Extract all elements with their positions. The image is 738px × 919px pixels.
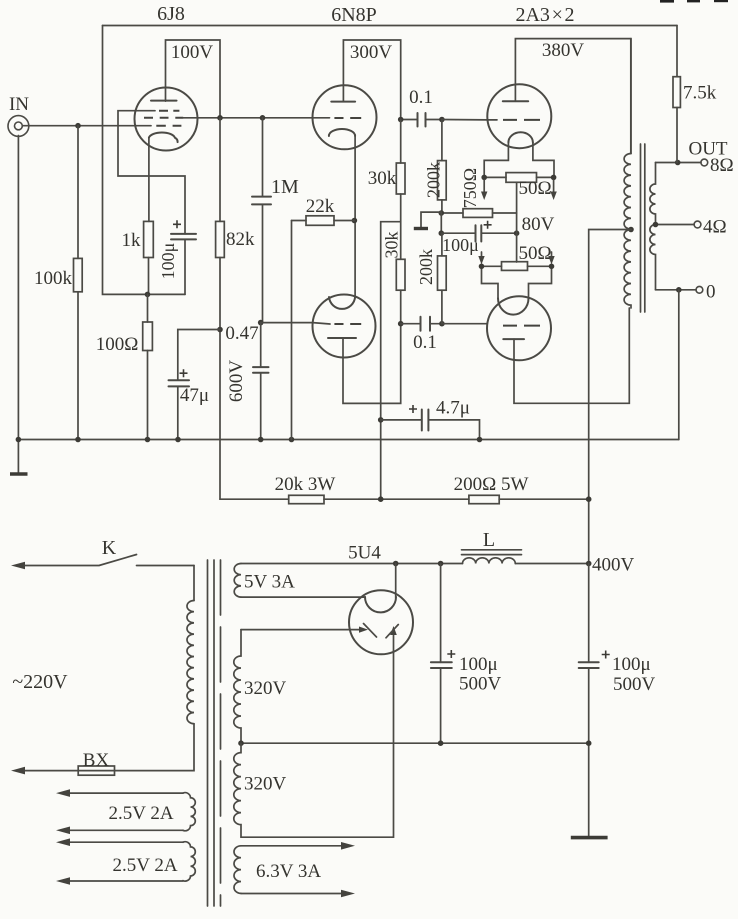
wire grid feed into V3a (442, 119, 497, 121)
node 100V callout bracket (166, 40, 221, 118)
capacitor 0.1 upper coupling (401, 119, 442, 121)
svg-text:400V: 400V (592, 555, 635, 576)
resistor 7.5k feedback (676, 26, 678, 163)
svg-text:500V: 500V (613, 674, 656, 695)
svg-text:1k: 1k (122, 230, 142, 251)
5U4 right anode with arrow (393, 634, 395, 651)
ground symbol left (17, 440, 19, 475)
wire left vertical from top bus down to cathode return (103, 26, 186, 295)
node junction 100u left at common row (438, 740, 444, 746)
wire 0.47 node to V2b grid (261, 322, 313, 324)
capacitor 100u bias (441, 232, 516, 234)
ground bus bottom of amp section (18, 439, 678, 441)
tube V3a filament dome (508, 132, 533, 142)
arrow filament feed lower right (down) (551, 252, 553, 257)
tube V3b grid (dashed) (503, 325, 540, 327)
svg-text:4Ω: 4Ω (703, 217, 727, 238)
output transformer secondary (650, 163, 656, 290)
svg-text:100V: 100V (171, 42, 214, 63)
wire IN jack to tube V1 grid (22, 125, 151, 127)
svg-text:0.47: 0.47 (225, 323, 258, 344)
svg-text:320V: 320V (244, 774, 287, 795)
resistor 20k 3W (289, 495, 324, 503)
resistor 100ohm (147, 294, 149, 439)
svg-text:7.5k: 7.5k (683, 83, 717, 104)
svg-text:0.1: 0.1 (413, 332, 437, 353)
svg-text:20k 3W: 20k 3W (275, 474, 336, 495)
node junction 4.7u to bus (477, 437, 483, 443)
tube V1 plate (151, 100, 177, 102)
node junction 8ohm / 7.5k (675, 160, 681, 166)
arrow filament feed left (down) (483, 180, 485, 193)
svg-text:200k: 200k (416, 249, 436, 285)
resistor 50ohm hum pot upper (484, 176, 553, 178)
node junction plate node at 82k (217, 115, 223, 121)
svg-text:750Ω: 750Ω (460, 168, 480, 208)
wire 50ohm center tap vertical (516, 182, 518, 262)
tube V2a plate (331, 101, 355, 103)
svg-text:300V: 300V (350, 42, 393, 63)
resistor 50ohm hum pot lower (482, 265, 552, 267)
resistor 82k plate load (219, 118, 221, 499)
svg-text:L: L (483, 529, 495, 551)
tube V2a cathode arc (329, 129, 355, 136)
wire V2b plate down and to 0.1 lower (343, 324, 401, 404)
arrow filament feed right (down) (553, 180, 555, 193)
wire secondary bottom to 0 terminal (656, 289, 697, 291)
capacitor 100u cathode bypass (171, 234, 196, 240)
resistor 30k upper plate load (400, 120, 402, 222)
tube V2b 6N8P lower triode envelope (313, 295, 376, 358)
switch K with mains arrow (20, 555, 194, 566)
capacitor 47u (169, 380, 190, 386)
tube V2b cathode dome (329, 297, 355, 309)
output transformer core (641, 144, 645, 312)
resistor 22k feedback (292, 220, 355, 222)
resistor 200k upper grid (441, 120, 443, 214)
wire OPT center tap to B+ (589, 230, 631, 564)
wire tap to 47u (178, 330, 220, 381)
svg-text:OUT: OUT (688, 139, 727, 160)
tube V3b filament skirt (482, 266, 552, 298)
wire V3b plate to OPT primary bottom (514, 308, 629, 403)
svg-text:50Ω: 50Ω (518, 178, 551, 199)
arrow filament feed lower left (down) (481, 252, 483, 257)
node 380V callout bracket (515, 39, 630, 154)
rectifier filament dome (365, 597, 396, 613)
svg-text:~220V: ~220V (12, 671, 68, 693)
svg-text:5U4: 5U4 (348, 543, 381, 564)
output transformer primary upper (630, 39, 632, 154)
tube V1 cathode arc (149, 132, 178, 142)
tube V2a 6N8P upper triode envelope (313, 85, 377, 149)
winding 2.5V 2A upper (65, 793, 183, 830)
wire primary bottom to BX (115, 724, 195, 771)
capacitor 100u 500V left (440, 564, 442, 744)
capacitor 0.1 lower coupling (401, 323, 442, 325)
node junction 5U4 cathode top (393, 561, 399, 567)
winding 320V upper (241, 629, 350, 631)
svg-text:500V: 500V (459, 674, 502, 695)
terminal 8ohm (701, 159, 708, 166)
wire V1 top grid to left and down to cathode network (118, 111, 185, 234)
tube V3a 2A3 upper envelope (487, 84, 551, 148)
node junction 4.7u left (378, 417, 384, 423)
svg-text:0: 0 (706, 282, 716, 303)
wire V1 screen row to plate node (183, 117, 312, 119)
wire V2a cathode down to V2b cathode dome (354, 136, 356, 298)
wire switch to PT primary (193, 566, 195, 601)
wire PSU common row (241, 742, 589, 744)
svg-text:BX: BX (83, 750, 110, 771)
node junction 47u tap on 82k line (217, 327, 223, 333)
wire secondary top to 8ohm terminal (656, 162, 702, 164)
tube V1 6J8 envelope (135, 88, 198, 151)
svg-text:200k: 200k (424, 162, 444, 198)
tube V3b 2A3 lower envelope (487, 296, 551, 360)
resistor 200k lower grid (441, 233, 443, 324)
winding 6.3V 3A (241, 846, 347, 894)
wire branch from 30k node to 4.7u line (381, 222, 401, 500)
tube V3b filament dome (498, 298, 529, 314)
node junction 100u row left (439, 230, 445, 236)
wire grid feed into V2b (313, 323, 330, 324)
svg-text:30k: 30k (368, 168, 397, 189)
node junction 750 left (439, 210, 445, 216)
node junction at 1M (260, 115, 266, 121)
svg-text:47μ: 47μ (180, 385, 209, 406)
node junction 20k row at 380 line (378, 496, 384, 502)
capacitor 1M (grid coupling) (262, 118, 264, 323)
node junction 0.1 lower right / 200k (439, 321, 445, 327)
node junction 1k bottom (145, 292, 151, 298)
node junction 0.47 (258, 320, 264, 326)
node junction 200ohm row to CT line (586, 496, 592, 502)
node junction 0.1 lower left (398, 321, 404, 327)
svg-text:0.1: 0.1 (409, 87, 433, 108)
svg-text:6N8P: 6N8P (331, 4, 377, 26)
tube V3a grid (dashed) (503, 119, 540, 121)
svg-text:100k: 100k (34, 268, 73, 289)
svg-text:1M: 1M (271, 176, 299, 198)
terminal 0 (696, 286, 703, 293)
winding 2.5V 2A lower (65, 842, 183, 881)
node junction 100u row right (514, 230, 520, 236)
svg-text:100μ: 100μ (158, 243, 178, 280)
svg-text:100μ: 100μ (612, 654, 651, 675)
svg-text:100Ω: 100Ω (96, 334, 139, 355)
wire V1 cathode down to 1k (148, 138, 150, 222)
tube V2a grid (dashed) (334, 117, 361, 119)
wire 20k row left riser (220, 498, 289, 500)
svg-text:320V: 320V (244, 678, 287, 699)
node junction OPT center tap (628, 227, 634, 233)
svg-text:100μ: 100μ (442, 235, 479, 255)
ground symbol mid (421, 212, 441, 227)
node junction at 0.1 right / 200k (439, 117, 445, 123)
tube V3b plate (503, 338, 524, 340)
tube V3a plate (503, 100, 528, 102)
ground symbol PSU (571, 836, 608, 840)
capacitor 4.7u feedback (381, 420, 480, 440)
svg-text:5V 3A: 5V 3A (244, 572, 295, 593)
wire grid feed into V2a (313, 117, 330, 119)
scan artifact marks top right (660, 0, 674, 3)
node junction 22k at cathode line (352, 218, 358, 224)
svg-text:4.7μ: 4.7μ (436, 398, 470, 419)
svg-text:80V: 80V (522, 214, 555, 235)
5U4 left anode with arrow (350, 629, 361, 631)
tube V3a filament skirt (484, 143, 554, 178)
wire 320V lower to 5U4 right anode (241, 651, 394, 837)
capacitor 100u 500V right (588, 564, 590, 837)
svg-text:2.5V 2A: 2.5V 2A (112, 855, 177, 876)
wire top row down to 5U4 filament (395, 564, 397, 598)
node junction on input wire (75, 123, 81, 129)
svg-text:IN: IN (9, 94, 29, 115)
svg-text:600V: 600V (226, 360, 247, 403)
node 300V callout bracket (343, 40, 400, 120)
node junction 100u left at B+ row (438, 561, 444, 567)
resistor 30k lower plate load (400, 222, 402, 324)
svg-text:30k: 30k (382, 232, 402, 259)
node junction 50ohm lower ends (479, 264, 485, 270)
tube V2b grid (dashed) (334, 323, 361, 325)
node junction 100u right at common row (586, 740, 592, 746)
svg-text:K: K (102, 537, 117, 559)
node dots on ground bus (16, 437, 22, 443)
node junction 50ohm upper ends (481, 175, 487, 181)
svg-text:82k: 82k (226, 229, 255, 250)
svg-text:50Ω: 50Ω (518, 243, 551, 264)
resistor 100k input (77, 126, 79, 440)
wire to V3b grid (442, 323, 487, 325)
capacitor 0.47 600V (260, 323, 262, 440)
resistor 750ohm (441, 212, 516, 214)
tube V2b plate (328, 337, 356, 339)
wire secondary 4ohm tap (656, 224, 695, 226)
wire B+ row from 5V winding to 400V node (241, 563, 589, 565)
wire 0 terminal down to ground bus (678, 290, 680, 440)
terminal 4ohm (694, 221, 701, 228)
power transformer primary winding (187, 601, 194, 724)
svg-text:2A3 × 2: 2A3 × 2 (515, 4, 574, 26)
resistor 200ohm 5W (469, 495, 499, 503)
winding 320V lower (234, 743, 241, 837)
node junction at 0.1 left (398, 117, 404, 123)
node junction 400V (586, 561, 592, 567)
svg-text:6.3V 3A: 6.3V 3A (256, 861, 321, 882)
power transformer core (208, 560, 215, 906)
tube V1 grid rows (dashed) (159, 110, 179, 112)
fuse BX (78, 766, 114, 775)
wire 200k line continues (440, 213, 442, 233)
svg-text:380V: 380V (542, 40, 585, 61)
winding 5V 3A (234, 564, 241, 598)
svg-text:6J8: 6J8 (157, 3, 185, 25)
rectifier 5U4 envelope (349, 590, 413, 654)
svg-text:2.5V 2A: 2.5V 2A (108, 803, 173, 824)
svg-text:22k: 22k (306, 196, 335, 217)
wire IN jack shield down to ground bus (17, 136, 19, 440)
output transformer primary lower (624, 230, 631, 309)
resistor 1k cathode (144, 221, 154, 257)
svg-text:100μ: 100μ (459, 654, 498, 675)
wire 22k left lead down to ground bus (291, 221, 293, 440)
wire top bus (103, 25, 678, 27)
svg-text:200Ω 5W: 200Ω 5W (454, 474, 529, 495)
